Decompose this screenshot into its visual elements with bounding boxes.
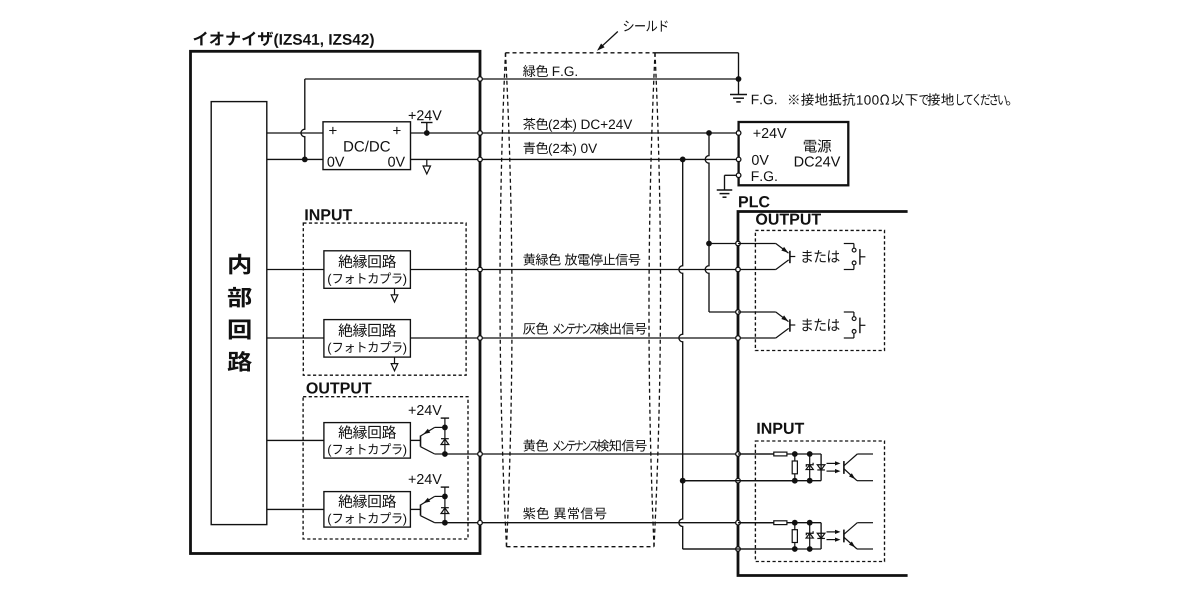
arrow下 from isolator U1 [394, 288, 396, 294]
+24V supply tap at DC/DC output [421, 122, 433, 124]
internal circuit block 内部回路 [211, 102, 267, 525]
input loop right side in2 [820, 523, 822, 549]
PLC transistor lower lead grp2 [776, 328, 789, 338]
DC/DC pin + (right) [393, 127, 400, 134]
shield cable right end ellipse [649, 53, 655, 547]
wire +24V to PLC output ch1 [709, 243, 738, 245]
internal circuit label char 部 [228, 287, 252, 308]
label 緑色 F.G. [523, 65, 535, 77]
PLC terminal [736, 478, 741, 483]
DC/DC label [344, 141, 353, 151]
ionizer terminal [478, 267, 483, 272]
input parallel resistor in1 [794, 454, 796, 481]
relay contact symbol grp1 [844, 243, 854, 245]
PLC terminal [736, 547, 741, 552]
power label 電源 [804, 140, 817, 153]
PLC INPUT dashed box [755, 441, 884, 562]
label 茶色(2本) DC+24V [523, 118, 535, 130]
junction dots input ch in2 [792, 520, 798, 526]
shield cable bottom dashed line [507, 546, 655, 548]
junction dot +24V to output1 [706, 241, 712, 247]
ionizer enclosure box (IZS41/IZS42) [191, 51, 481, 553]
label 灰色 メンテナンス検出信号 [523, 323, 535, 334]
PLC terminal [736, 452, 741, 457]
arrow下 from isolator U2 [394, 357, 396, 363]
ionizer terminal [478, 77, 483, 82]
isolation circuit box 絶縁回路(フォトカプラ) ch2 [324, 492, 411, 527]
junction dot 0V feed to PLC inputs [680, 157, 686, 163]
ground symbol F.G. (top) [730, 94, 747, 96]
label +24V (DC/DC) [409, 112, 416, 119]
shield cable top dashed line [506, 52, 656, 54]
optocoupler LED in1 [817, 465, 825, 470]
label INPUT (PLC) [757, 423, 759, 434]
0V potential marker arrow [426, 159, 428, 166]
label OUTPUT (PLC) [756, 213, 767, 224]
input series resistor R in1 [738, 453, 774, 455]
wire signal1 into isolator [267, 269, 324, 271]
junction dot 0V to input return1 [680, 478, 686, 484]
wire shield to F.G. ground [655, 52, 739, 54]
input zener diode in1 [809, 454, 811, 481]
label シールド [624, 21, 634, 32]
transistor emitter to +24V ch2 [421, 496, 435, 505]
+24V tap T-bar ch2 [441, 486, 449, 488]
wire blue 0V 青色 [411, 158, 739, 160]
junction dot emitter/+24V ch1 [442, 425, 448, 431]
input series resistor R in2 [738, 522, 774, 524]
optocoupler light arrows in1 [827, 462, 839, 464]
PLC transistor upper lead grp2 [738, 311, 776, 313]
PLC transistor upper lead grp1 [738, 243, 776, 245]
PLC box outline [738, 212, 908, 576]
label OUTPUT (ionizer) [307, 382, 318, 393]
phototransistor in1 [843, 461, 845, 474]
input parallel resistor body in2 [792, 530, 797, 543]
wire power F.G. to ground [725, 174, 737, 176]
label または grp1 [803, 250, 812, 263]
power terminal +24V [736, 131, 741, 136]
PLC terminal [736, 241, 741, 246]
wire brown DC+24V 茶色 [411, 132, 739, 134]
wire internal circuit to DC/DC (+) [267, 132, 323, 134]
flyback diode ch1 [444, 427, 446, 454]
label 黄緑色 放電停止信号 [523, 253, 535, 265]
optocoupler light arrows in2 [827, 531, 839, 533]
flyback diode ch2 [444, 496, 446, 522]
transistor Q bar ch1 [420, 436, 422, 447]
note 接地抵抗100Ω以下 [789, 95, 799, 105]
DC/DC pin + (left) [329, 127, 336, 134]
label INPUT (ionizer) [305, 209, 307, 220]
optocoupler LED in2 [817, 533, 825, 538]
wire internal circuit to DC/DC (0V) [267, 158, 323, 160]
PLC terminal [736, 310, 741, 315]
title label イオナイザ(IZS41, IZS42) [194, 32, 207, 46]
PLC terminal [736, 267, 741, 272]
wire isolator to transistor base ch2 [267, 508, 324, 510]
isolation circuit box U1 絶縁回路(フォトカプラ) [324, 251, 411, 288]
ionizer OUTPUT dashed box [303, 397, 468, 539]
PLC OUTPUT dashed box [755, 230, 884, 350]
transistor collector to output ch2 [421, 516, 435, 523]
internal circuit label char 回 [229, 320, 251, 340]
transistor emitter to +24V ch1 [421, 427, 435, 436]
ionizer terminal [478, 452, 483, 457]
label +24V (output ch1) [409, 407, 416, 414]
phototransistor in2 [843, 530, 845, 543]
wire gray メンテナンス検出信号 [410, 337, 775, 339]
wire +24V feed vertical [705, 133, 709, 312]
ground symbol (power F.G.) [717, 189, 733, 191]
label PLC [739, 196, 748, 207]
PLC terminal [736, 336, 741, 341]
PLC transistor bar grp2 [789, 319, 791, 331]
wire input return ch1 [683, 480, 795, 482]
power pin label +24V [753, 130, 760, 137]
wire green F.G. horizontal 緑色F.G. [305, 78, 739, 80]
wire yellow メンテナンス検知信号 [445, 453, 774, 455]
shield cable left end ellipse [500, 53, 507, 547]
+24V tap T-bar ch1 [441, 417, 449, 419]
junction dot FG [736, 76, 742, 82]
wire signal2 into isolator [267, 337, 324, 339]
input loop right side in1 [820, 454, 822, 481]
wire input return ch2 [683, 548, 795, 550]
junction dots input ch in1 [792, 451, 798, 457]
PLC transistor base lead grp1 [790, 256, 795, 258]
label または grp2 [803, 319, 812, 332]
wire violet 異常信号 [445, 522, 774, 524]
input parallel resistor body in1 [792, 461, 797, 474]
power supply box 電源 DC24V [739, 122, 849, 185]
ionizer terminal [478, 336, 483, 341]
wire yellow-green 放電停止信号 [410, 269, 775, 271]
isolation circuit box 絶縁回路(フォトカプラ) ch1 [324, 423, 411, 459]
label F.G. (ground) [752, 95, 759, 104]
junction dot collector/output ch2 [442, 520, 448, 526]
power pin label 0V [752, 155, 759, 165]
label +24V (output ch2) [409, 476, 416, 483]
transistor Q bar ch2 [420, 505, 422, 516]
wire 0V feed vertical [679, 159, 683, 549]
junction dot green FG to 0V [302, 157, 308, 163]
junction dot emitter/+24V ch2 [442, 494, 448, 500]
wire isolator to transistor base ch1 [267, 439, 324, 441]
arrow to shield [600, 32, 618, 48]
internal circuit label char 内 [229, 254, 250, 275]
ionizer INPUT dashed box [303, 223, 466, 375]
power terminal 0V [736, 157, 741, 162]
input zener diode in2 [809, 523, 811, 549]
label 青色(2本) 0V [523, 142, 535, 154]
wire green F.G. vertical from 0V [301, 79, 305, 159]
transistor collector to output ch1 [421, 447, 435, 454]
internal circuit label char 路 [228, 351, 252, 372]
PLC transistor bar grp1 [789, 251, 791, 263]
relay contact symbol grp2 [844, 311, 854, 313]
label 黄色 メンテナンス検知信号 [523, 439, 535, 451]
power label DC24V [795, 157, 804, 167]
label 紫色 異常信号 [523, 507, 535, 519]
wire box to transistor ch2 [410, 508, 420, 510]
DC/DC converter box [323, 122, 411, 170]
DC/DC pin 0V (left) [327, 157, 334, 167]
wire box to transistor ch1 [410, 439, 420, 441]
DC/DC pin 0V (right) [388, 157, 395, 167]
ionizer terminal [478, 131, 483, 136]
input parallel resistor in2 [794, 523, 796, 549]
power terminal F.G. [736, 173, 741, 178]
junction dot +24V feed to PLC [706, 130, 712, 136]
junction dot collector/output ch1 [442, 451, 448, 457]
isolation circuit box U2 絶縁回路(フォトカプラ) [324, 320, 411, 358]
ionizer terminal [478, 520, 483, 525]
PLC terminal [736, 520, 741, 525]
wire +24V to PLC output ch2 [709, 311, 738, 313]
PLC transistor base lead grp2 [790, 324, 795, 326]
power pin label F.G. [752, 171, 759, 181]
ionizer terminal [478, 157, 483, 162]
PLC transistor lower lead grp1 [776, 260, 789, 270]
